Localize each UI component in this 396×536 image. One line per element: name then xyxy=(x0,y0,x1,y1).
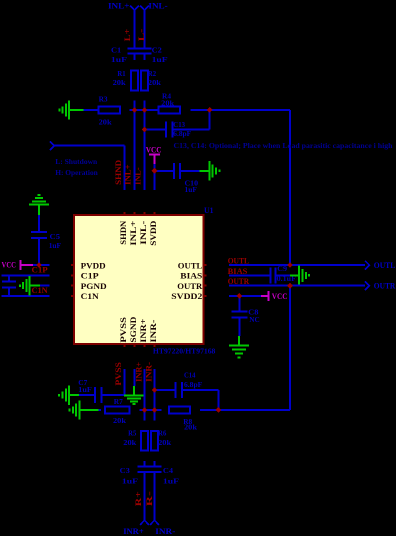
wire C6 to C1N row xyxy=(8,288,10,296)
wire node B down to C13 xyxy=(144,110,146,130)
port OUTR xyxy=(365,281,369,290)
svg-text:C1N: C1N xyxy=(32,286,48,295)
wire gnd to R3 xyxy=(83,109,98,111)
resistor R2 xyxy=(141,70,148,90)
resistor R4 xyxy=(159,107,181,114)
capacitor C1 xyxy=(127,48,141,50)
svg-text:L: Shutdown: L: Shutdown xyxy=(55,157,98,166)
resistor R8 xyxy=(169,407,190,414)
junction OUTR/feedback xyxy=(287,283,293,289)
junction SVDD/C10 xyxy=(152,168,158,174)
junction SVDD2/C8 xyxy=(237,293,243,299)
wire C1P row xyxy=(2,274,50,276)
wire R4 to feedback corner xyxy=(191,109,290,111)
wire C13 to node C xyxy=(174,129,210,131)
wire SGND vertical xyxy=(134,369,136,386)
wire INL+ line to IC xyxy=(134,110,136,190)
ground GND top-left xyxy=(68,100,70,119)
pin stubs right xyxy=(203,264,207,266)
svg-text:INR-: INR- xyxy=(155,526,175,536)
svg-text:BIAS: BIAS xyxy=(180,272,203,281)
svg-text:VCC: VCC xyxy=(146,146,162,155)
ground GND at PGND xyxy=(29,276,31,295)
pin stubs left xyxy=(71,264,75,266)
svg-text:C13: C13 xyxy=(173,120,185,129)
svg-text:SHND: SHND xyxy=(114,160,123,185)
capacitor C3 xyxy=(137,466,151,468)
svg-text:C1N: C1N xyxy=(81,292,99,301)
svg-text:20k: 20k xyxy=(123,438,137,447)
wire C14 to corner xyxy=(183,389,218,391)
wire feedback bottom vertical xyxy=(289,286,291,410)
svg-text:OUTR: OUTR xyxy=(374,282,396,291)
svg-text:R7: R7 xyxy=(114,397,123,406)
wire R3 to node A xyxy=(129,109,158,111)
op-amp U1 HT97220 body xyxy=(74,215,204,344)
svg-text:C2: C2 xyxy=(152,45,162,54)
wire INR+ line xyxy=(144,369,146,420)
svg-text:HT97220/HT97168: HT97220/HT97168 xyxy=(153,347,216,356)
wire OUTL row xyxy=(229,264,365,266)
ground GND above C5 flipped xyxy=(29,204,49,206)
svg-text:R+: R+ xyxy=(134,491,143,506)
svg-text:C3: C3 xyxy=(120,466,130,475)
wire to C10 xyxy=(155,170,174,172)
ground GND at C10 xyxy=(200,170,210,172)
ground GND at C7 xyxy=(69,394,79,396)
svg-text:INR+: INR+ xyxy=(139,318,148,343)
wire SVDD2 to C8 xyxy=(238,296,240,312)
capacitor C7 xyxy=(94,387,96,403)
junction node INR-/R8 xyxy=(152,407,158,413)
svg-text:L+: L+ xyxy=(123,28,132,41)
wire C10 to ground xyxy=(181,170,199,172)
wire BIAS row xyxy=(229,274,270,276)
svg-text:20k: 20k xyxy=(158,438,172,447)
wire feedback top vertical xyxy=(289,110,291,265)
svg-text:20k: 20k xyxy=(161,99,175,108)
svg-text:SHDN: SHDN xyxy=(119,220,128,244)
wire gnd to R7 xyxy=(98,409,101,411)
svg-text:INL+: INL+ xyxy=(124,164,133,185)
resistor R6 xyxy=(151,431,158,450)
svg-text:C4: C4 xyxy=(163,466,173,475)
svg-text:20k: 20k xyxy=(113,416,127,425)
wire INL+ port to C1 xyxy=(134,10,136,49)
capacitor C9 xyxy=(270,267,272,283)
svg-text:NC: NC xyxy=(249,315,260,324)
wire PGND row xyxy=(40,285,49,287)
svg-text:INL-: INL- xyxy=(148,0,167,10)
capacitor C2 xyxy=(137,48,151,50)
pin stubs bottom xyxy=(124,344,126,348)
capacitor C8 xyxy=(231,311,247,313)
svg-text:PVSS: PVSS xyxy=(114,362,123,386)
svg-text:VCC: VCC xyxy=(2,261,17,270)
wire OUTR row xyxy=(229,285,365,287)
svg-text:C5: C5 xyxy=(50,232,61,241)
wire SHDN horizontal xyxy=(54,145,124,147)
svg-text:C9: C9 xyxy=(277,264,287,273)
svg-text:1uF: 1uF xyxy=(49,241,62,250)
svg-text:U1: U1 xyxy=(204,206,214,215)
capacitor C4 xyxy=(147,466,161,468)
ground GND below C8 xyxy=(238,336,240,346)
ground GND at SGND xyxy=(133,386,135,396)
wire gnd to C5 xyxy=(38,215,40,232)
port arrow SHDN xyxy=(50,141,54,150)
svg-text:R5: R5 xyxy=(128,428,136,437)
wire C7 to ground xyxy=(79,394,94,396)
svg-text:INR-: INR- xyxy=(149,319,158,342)
junction node INL+/R3 xyxy=(132,107,138,113)
wire C9 to ground xyxy=(277,274,290,276)
wire C8 to ground xyxy=(238,319,240,337)
svg-text:R-: R- xyxy=(145,491,154,506)
junction node INR+/R7 xyxy=(142,407,148,413)
svg-text:C14: C14 xyxy=(184,371,195,380)
svg-text:INR+: INR+ xyxy=(134,362,143,382)
wire R2 to node INL- xyxy=(144,100,146,110)
wire PVSS vertical xyxy=(124,369,126,395)
svg-text:VCC: VCC xyxy=(272,292,288,301)
svg-text:20k: 20k xyxy=(99,117,113,126)
svg-text:1uF: 1uF xyxy=(152,55,168,64)
capacitor C14 xyxy=(175,382,177,398)
svg-text:H: Operation: H: Operation xyxy=(55,168,98,177)
svg-text:R6: R6 xyxy=(158,428,166,437)
capacitor C13 xyxy=(165,122,167,138)
svg-text:1uF: 1uF xyxy=(78,385,92,394)
svg-text:R2: R2 xyxy=(148,69,156,78)
svg-text:1uF: 1uF xyxy=(111,55,127,64)
resistor R3 xyxy=(98,107,119,114)
ground GND at C9 xyxy=(290,274,299,276)
svg-text:OUTR: OUTR xyxy=(177,282,202,291)
capacitor C6 flying xyxy=(8,275,10,281)
svg-text:6.8pF: 6.8pF xyxy=(184,380,203,389)
wire C3 to port INR+ xyxy=(144,473,146,520)
wire SHDN vertical xyxy=(124,146,126,190)
svg-text:1uF: 1uF xyxy=(122,476,138,485)
wire PVDD row xyxy=(33,264,49,266)
wire C5 to PVDD node xyxy=(38,239,40,265)
svg-text:20k: 20k xyxy=(148,78,162,87)
wire to C14 xyxy=(155,389,176,391)
svg-text:1uF: 1uF xyxy=(163,476,179,485)
wire PVSS to C7 xyxy=(102,394,125,396)
svg-text:PVDD: PVDD xyxy=(81,261,106,270)
svg-text:SVDD: SVDD xyxy=(149,220,158,245)
power VCC right xyxy=(261,295,269,297)
svg-text:L-: L- xyxy=(137,28,146,41)
svg-text:R3: R3 xyxy=(99,94,108,103)
svg-text:INL+: INL+ xyxy=(108,0,130,10)
capacitor C10 xyxy=(173,163,175,179)
svg-text:SVDD2: SVDD2 xyxy=(171,292,202,301)
wire INR- line xyxy=(154,369,156,420)
wire SVDD2 row xyxy=(229,295,261,297)
svg-text:PVSS: PVSS xyxy=(119,316,128,342)
wire to C13 xyxy=(145,129,166,131)
wire INL- line to IC xyxy=(144,130,146,191)
port INL+ xyxy=(130,6,139,11)
svg-text:1uF: 1uF xyxy=(185,185,198,194)
wire R5 to C3 xyxy=(144,461,146,466)
svg-text:C1P: C1P xyxy=(81,272,99,281)
svg-text:INL-: INL- xyxy=(139,220,148,245)
resistor R7 xyxy=(105,407,129,414)
svg-text:C13, C14: Optional; Place when: C13, C14: Optional; Place when Load para… xyxy=(174,141,394,150)
port INR- xyxy=(150,520,159,525)
svg-text:C1: C1 xyxy=(111,45,121,54)
svg-text:INL+: INL+ xyxy=(129,220,138,246)
wire R1 to node INL+ xyxy=(134,100,136,110)
junction C14 tap on INR- xyxy=(152,387,158,393)
wire R6 to C4 xyxy=(154,461,156,466)
wire R7 to node K xyxy=(139,409,161,411)
junction OUTL/feedback xyxy=(287,262,293,268)
junction node INL-/R4 xyxy=(142,107,148,113)
ground GND bottom-left xyxy=(79,400,81,419)
pin stubs top xyxy=(124,212,126,216)
svg-text:20k: 20k xyxy=(184,423,198,432)
junction PVDD/C5 xyxy=(36,262,42,268)
svg-text:INR+: INR+ xyxy=(123,526,144,536)
svg-text:INR-: INR- xyxy=(144,362,153,382)
wire INL- port to C2 xyxy=(144,10,146,49)
junction C13 tap on INL- xyxy=(142,127,148,133)
junction C14/R8 xyxy=(216,407,222,413)
wire R8 to feedback corner xyxy=(200,409,290,411)
wire SVDD vertical xyxy=(154,164,156,190)
svg-text:OUTL: OUTL xyxy=(178,261,203,270)
junction node R4/C13 xyxy=(207,107,213,113)
port INL- xyxy=(140,6,149,11)
svg-text:OUTL: OUTL xyxy=(374,261,396,270)
port INR+ xyxy=(140,520,149,525)
svg-text:R1: R1 xyxy=(117,69,125,78)
svg-text:PGND: PGND xyxy=(81,282,107,291)
svg-text:20k: 20k xyxy=(113,78,127,87)
resistor R1 xyxy=(131,70,138,90)
wire C4 to port INR- xyxy=(154,473,156,520)
capacitor C5 xyxy=(31,231,47,233)
resistor R5 xyxy=(141,431,148,450)
svg-text:SGND: SGND xyxy=(129,316,138,342)
port OUTL xyxy=(365,261,369,270)
